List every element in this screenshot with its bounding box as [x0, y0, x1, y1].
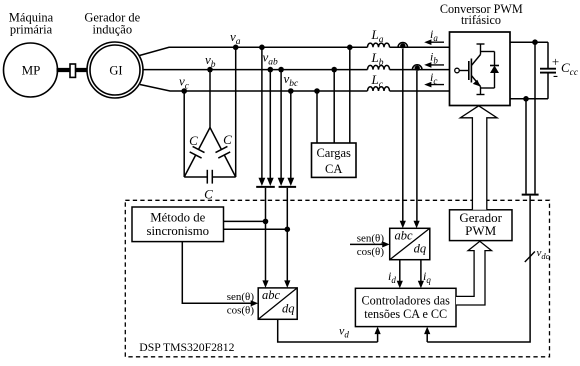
node phase b tap v_ab [268, 67, 274, 73]
v_ab measurement bar [256, 186, 275, 188]
wire tap to Metodo upper [224, 220, 266, 222]
arrow i_q into Controladores [418, 281, 424, 289]
wire phase b after inductor [390, 69, 450, 71]
node DC minus sense [523, 96, 529, 102]
svg-text:Controladores das: Controladores das [362, 293, 451, 307]
current arrow i_a [424, 39, 444, 45]
wire DC minus sense drop [525, 99, 527, 194]
arrow sen cos into voltage dq block [251, 300, 259, 306]
node v_b [207, 67, 213, 73]
svg-text:abc: abc [395, 229, 414, 243]
node phase c tap v_bc [288, 88, 294, 94]
svg-text:sen(θ): sen(θ) [357, 232, 385, 244]
node tap v_bc [285, 227, 291, 233]
current sensor phase b [412, 65, 422, 71]
transistor IGBT [455, 44, 485, 95]
wire v_c to capacitor bank [183, 91, 185, 177]
svg-text:C: C [223, 132, 232, 147]
inductor La [368, 43, 390, 47]
node phase b to loads [331, 67, 337, 73]
svg-text:Cargas: Cargas [316, 146, 351, 160]
svg-text:indução: indução [93, 22, 133, 36]
wire v_a to capacitor bank [235, 47, 237, 177]
v_dc slash mark [525, 252, 535, 263]
v_bc measurement bar [279, 186, 297, 188]
wire v_dc sense [427, 196, 530, 342]
v_dc measurement bar [522, 194, 539, 196]
block current abc dq transform [390, 228, 430, 259]
node phase a to loads [347, 45, 353, 51]
capacitor C left (delta side) [184, 128, 210, 178]
svg-text:abc: abc [262, 288, 281, 302]
capacitor Ccc [540, 42, 556, 99]
wire phase c [140, 85, 368, 92]
node tap v_ab [263, 219, 269, 225]
svg-text:trifásico: trifásico [461, 13, 501, 27]
hollow arrow Gerador PWM to converter [460, 106, 497, 210]
block voltage abc dq transform [258, 288, 297, 319]
arrow v_dc into Controladores [424, 327, 430, 342]
diode D1 [481, 52, 500, 89]
block Gerador PWM [450, 210, 513, 241]
svg-text:primária: primária [10, 22, 53, 36]
wire phase a [140, 47, 368, 55]
block Cargas CA [312, 143, 357, 177]
node phase c to loads [314, 88, 320, 94]
svg-text:tensões CA e CC: tensões CA e CC [364, 307, 447, 321]
arrow sen cos into current dq block [382, 241, 390, 247]
arrow i_d into Controladores [397, 281, 403, 289]
wire v_ab measurement pair [259, 47, 274, 186]
label Conversor PWM trifasico [440, 2, 523, 27]
wire v_b to capacitor bank apex [209, 70, 211, 128]
wire sen cos into current dq block [350, 243, 386, 245]
wire phase c after inductor [390, 90, 450, 92]
svg-text:cos(θ): cos(θ) [357, 246, 385, 258]
node DC plus sense [532, 39, 538, 45]
wire v_bc measurement pair [278, 70, 295, 186]
capacitor C bottom (delta side) [184, 170, 236, 184]
wire loads phase a [349, 47, 351, 143]
wire v_d output [278, 319, 378, 342]
inductor Lb [368, 65, 390, 69]
svg-text:C: C [189, 133, 198, 148]
hollow arrow Controladores to Gerador PWM [456, 241, 492, 305]
node phase b tap v_bc [278, 67, 284, 73]
arrow i_b into current dq block [414, 221, 420, 229]
wire DC plus sense drop [534, 42, 536, 194]
current arrow i_c [424, 82, 444, 88]
svg-text:-: - [553, 68, 558, 84]
svg-text:Método de: Método de [150, 210, 205, 224]
svg-text:dq: dq [282, 302, 295, 316]
wire v_bc to dq block [286, 188, 288, 284]
wire v_ab to dq block [265, 188, 267, 284]
wire tap to Metodo lower [224, 228, 288, 230]
arrow i_a into current dq block [400, 221, 406, 229]
dashed DSP box [125, 200, 549, 356]
svg-text:DSP TMS320F2812: DSP TMS320F2812 [139, 341, 234, 354]
arrow into voltage dq block right input [284, 280, 290, 288]
wire phase b [143, 69, 368, 71]
wire Metodo to voltage dq block sen cos [182, 242, 254, 304]
wire current sensor a to dq block [402, 49, 404, 225]
current arrow i_b [424, 62, 444, 68]
wire current sensor b to dq block [416, 71, 418, 225]
generator GI [87, 42, 143, 98]
wire loads phase c [316, 91, 318, 143]
label Maquina primaria [9, 10, 54, 36]
converter box U1 [450, 32, 511, 106]
arrow v_d into Controladores [375, 327, 381, 342]
inductor Lc [368, 87, 390, 91]
svg-text:MP: MP [22, 62, 41, 77]
svg-text:GI: GI [109, 64, 122, 78]
svg-text:C: C [204, 187, 213, 202]
shaft coupling [57, 64, 88, 77]
wire i_d output [399, 260, 401, 285]
svg-text:cos(θ): cos(θ) [227, 305, 255, 317]
wire DC plus rail [510, 41, 548, 43]
label Gerador de inducao [84, 10, 140, 36]
machine MP [4, 43, 58, 97]
node v_c [181, 88, 187, 94]
wire loads phase b [333, 70, 335, 143]
block Controladores das tensoes CA e CC [355, 288, 456, 326]
node phase a tap v_ab [259, 45, 265, 51]
block Metodo de sincronismo [132, 207, 224, 242]
svg-text:sen(θ): sen(θ) [227, 291, 255, 303]
svg-text:sincronismo: sincronismo [147, 224, 210, 238]
node v_a [233, 45, 239, 51]
svg-text:dq: dq [414, 242, 427, 256]
wire DC minus rail [510, 98, 548, 100]
svg-text:CA: CA [325, 162, 342, 176]
svg-text:PWM: PWM [465, 223, 497, 238]
wire phase a after inductor [390, 46, 450, 48]
capacitor C right (delta side) [210, 128, 236, 178]
arrow into voltage dq block left input [262, 280, 268, 288]
current sensor phase a [398, 42, 408, 48]
wire i_q output [420, 260, 422, 285]
svg-text:+: + [552, 54, 559, 69]
